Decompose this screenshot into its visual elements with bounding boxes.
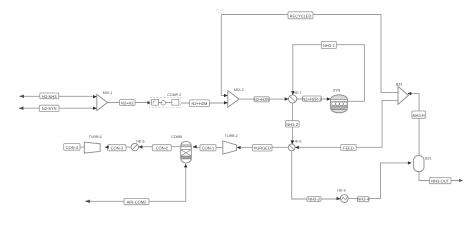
arrow into HE-7 left [285, 97, 289, 100]
arrow into HE-7 top [291, 91, 294, 95]
wire COMB to HE-5 [139, 146, 181, 148]
wire AIR-COM2 into COMB bottom [85, 166, 185, 201]
stream label N2+H2R [254, 97, 270, 102]
stream label CON-2 [152, 145, 171, 151]
arrow into HE-6 right [295, 146, 299, 149]
svg-text:N2+H2R-1: N2+H2R-1 [302, 96, 322, 101]
svg-text:TURB-6: TURB-6 [89, 135, 102, 139]
flash drum B21 [414, 156, 432, 172]
wire B21 bottom to NH3-OUT [419, 172, 460, 181]
arrow NH3-OUT end [459, 179, 463, 182]
reactor SYN [330, 88, 348, 113]
wire HE-6 bottom to HE-9 [292, 151, 341, 199]
svg-text:B21: B21 [425, 157, 431, 161]
svg-text:N2-SYN: N2-SYN [42, 106, 57, 111]
stream label CON-1 [200, 145, 216, 151]
svg-text:SYN: SYN [333, 88, 341, 92]
wire COMP-2 to MIX-2 [181, 102, 228, 104]
svg-text:MIX-2: MIX-2 [234, 88, 244, 92]
arrow into MIX-1 upper [93, 95, 97, 98]
stream label N2-SYN [39, 105, 59, 111]
heater HE-9 [337, 189, 348, 203]
stream label NH3-3 [307, 197, 321, 202]
svg-text:CON-1: CON-1 [202, 146, 215, 151]
stream label AIR-COM2 [124, 198, 149, 204]
stream label PURGED [253, 144, 272, 151]
wire SYN outlet loop NH3-1 back to HE-7 [293, 45, 365, 102]
stream label H2-NH3 [40, 93, 59, 99]
arrow into COMP-2 [148, 101, 152, 104]
wire recycle down into MIX-2 [221, 15, 228, 96]
svg-text:B33: B33 [396, 83, 402, 87]
svg-text:NH3-3: NH3-3 [308, 197, 320, 202]
node faint mark above recycle corner [216, 9, 224, 13]
arrow into TURB-6 right [105, 146, 109, 149]
svg-text:HE-6: HE-6 [293, 140, 301, 144]
splitter B33 [396, 83, 409, 105]
svg-text:NH3-4: NH3-4 [357, 197, 369, 202]
compressor COMP-2 [150, 93, 181, 108]
svg-text:AIR-COM2: AIR-COM2 [127, 200, 147, 205]
svg-text:N2+H2R: N2+H2R [254, 97, 270, 102]
wire HE-7 to SYN [297, 98, 331, 100]
svg-text:H2-NH3: H2-NH3 [42, 94, 57, 99]
stream label CON-3 [108, 145, 126, 151]
stream label N2+H2R-1 [302, 96, 322, 101]
wire top recycle line [221, 15, 398, 93]
stream label NH3-2 [285, 121, 299, 127]
heater HE-7 [289, 91, 302, 103]
wire MIX-1 to COMP-2 [108, 102, 149, 104]
stream label N2+H2M [190, 100, 210, 107]
svg-text:CON-4: CON-4 [66, 145, 79, 150]
wire HE-9 to B21 [348, 163, 408, 199]
arrow into HE-5 right [139, 145, 143, 148]
svg-text:HE-5: HE-5 [136, 140, 144, 144]
wire TURB-6 to CON-4 [80, 146, 84, 148]
arrow into COMB bottom [184, 164, 187, 168]
wire HE-5 to TURB-6 [105, 146, 131, 148]
turbine TURB-6 [84, 135, 101, 153]
turbine TURB-2 [223, 134, 238, 154]
arrow feed H2 left end [19, 95, 24, 98]
arrow AIR-COM2 left end [85, 200, 90, 203]
wire B33 apex to B21 top via NH3-R [408, 94, 419, 156]
svg-text:N2+H2: N2+H2 [121, 101, 134, 106]
stream label N2+H2 [120, 100, 135, 106]
svg-text:MIX-1: MIX-1 [103, 91, 113, 95]
wire feed N2 line [19, 107, 97, 109]
wire HE-6 to TURB-2 [237, 146, 288, 148]
svg-text:NH3-OUT: NH3-OUT [431, 179, 449, 184]
svg-text:RECYCLED: RECYCLED [290, 13, 312, 18]
reactor COMB [171, 135, 192, 163]
arrow into HE-6 top [291, 140, 294, 144]
arrow into B33 apex [408, 92, 412, 95]
wire feed H2 line [20, 95, 97, 97]
stream label NH3-4 [357, 197, 369, 202]
svg-text:PURGED: PURGED [254, 146, 271, 151]
stream label NH3-R [412, 111, 426, 118]
svg-text:COMB: COMB [171, 135, 182, 139]
mixer MIX-2 [228, 88, 244, 107]
svg-text:NH3-2: NH3-2 [286, 122, 298, 127]
arrow into MIX-1 lower [93, 107, 97, 110]
arrow into COMB right [193, 145, 197, 148]
arrow into SYN [327, 97, 331, 100]
stream label CON-4 [64, 144, 80, 151]
wire MIX-2 to HE-7 [239, 98, 288, 100]
wire B33 to FEED to HE-6 [295, 100, 398, 147]
arrow feed N2 left end [19, 107, 24, 110]
heat exchanger HE-5 [131, 140, 144, 151]
arrow into MIX-2 upper [224, 94, 228, 97]
wire TURB-2 to COMB [193, 147, 223, 149]
svg-text:TURB-2: TURB-2 [225, 134, 238, 138]
svg-text:HE-7: HE-7 [293, 91, 301, 95]
svg-text:CON-2: CON-2 [156, 146, 169, 151]
svg-text:COMP-2: COMP-2 [167, 93, 181, 97]
svg-text:NH3-1: NH3-1 [323, 43, 335, 48]
arrow into TURB-2 [237, 146, 241, 149]
wire HE-7 bottom to HE-6 [292, 103, 294, 144]
mixer MIX-1 [97, 91, 112, 111]
stream label RECYCLED [288, 12, 313, 19]
stream label NH3-1 [321, 41, 336, 48]
heat exchanger HE-6 [288, 140, 301, 151]
svg-text:N2+H2M: N2+H2M [191, 101, 207, 106]
svg-text:FEED: FEED [343, 145, 354, 150]
svg-text:NH3-R: NH3-R [413, 113, 425, 118]
svg-text:CON-3: CON-3 [111, 146, 124, 151]
stream label FEED [341, 144, 356, 150]
arrow into HE-9 left [337, 197, 341, 200]
svg-text:HE-9: HE-9 [337, 189, 345, 193]
arrow into B21 left [408, 161, 412, 164]
arrow into MIX-2 lower [224, 101, 228, 104]
stream label NH3-OUT [429, 178, 451, 184]
